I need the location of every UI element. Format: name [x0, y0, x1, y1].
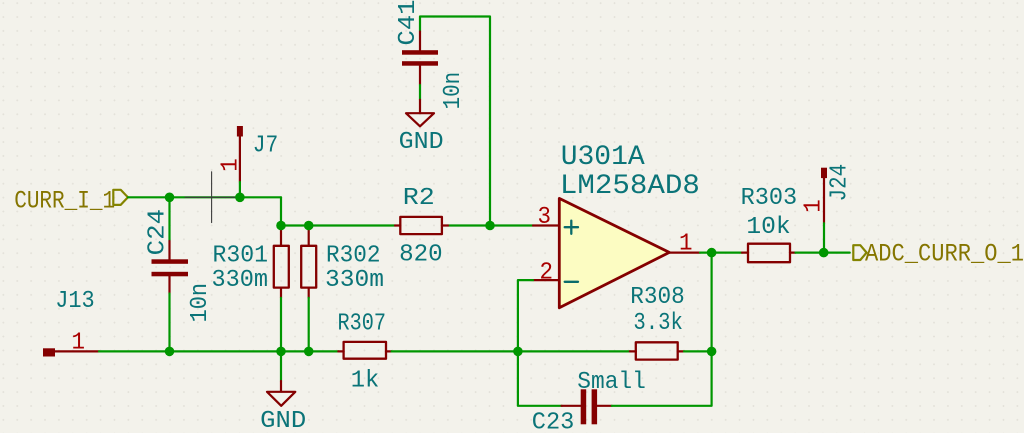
svg-text:R307: R307 [338, 311, 387, 338]
junction (C24 bottom) [165, 347, 175, 357]
wire [280, 298, 282, 352]
ground symbol (top, below C41) [406, 100, 434, 127]
wire [420, 17, 490, 226]
svg-text:LM258AD8: LM258AD8 [560, 171, 700, 202]
cursor crosshair [185, 172, 239, 223]
hierarchical label ADC_CURR_O_1 [853, 240, 1024, 269]
op-amp U301A [533, 198, 700, 307]
resistor R303 [742, 244, 796, 263]
junction (R302 bottom) [304, 347, 314, 357]
resistor R307 [338, 342, 391, 359]
svg-text:1k: 1k [351, 368, 380, 395]
svg-text:GND: GND [260, 408, 306, 433]
wire [392, 350, 630, 352]
svg-text:R308: R308 [630, 284, 685, 311]
svg-text:10k: 10k [746, 214, 790, 241]
svg-text:J24: J24 [827, 164, 854, 202]
svg-text:C23: C23 [532, 410, 575, 433]
junction (J24 / output rail) [819, 248, 829, 258]
svg-text:R302: R302 [326, 243, 381, 270]
wire [684, 350, 712, 352]
svg-text:GND: GND [399, 129, 444, 156]
wire [518, 351, 562, 405]
svg-text:C24: C24 [145, 209, 172, 256]
wire [796, 252, 850, 254]
wire [128, 196, 281, 198]
junction (inverting node) [513, 347, 523, 357]
connector J13 [43, 348, 99, 356]
junction (op-amp output) [707, 248, 717, 258]
svg-text:C41: C41 [395, 0, 422, 46]
wire [518, 280, 533, 351]
junction (R301 top) [276, 221, 286, 231]
svg-text:CURR_I_1: CURR_I_1 [14, 186, 115, 215]
resistor R301 [274, 226, 289, 298]
wire [419, 85, 421, 100]
svg-text:3: 3 [538, 204, 552, 231]
wire [823, 223, 825, 252]
svg-text:ADC_CURR_O_1: ADC_CURR_O_1 [865, 240, 1024, 269]
svg-text:820: 820 [399, 242, 443, 269]
junction (R301 bottom / GND) [276, 347, 286, 357]
resistor R302 [301, 226, 316, 298]
wire [99, 350, 338, 352]
hierarchical label CURR_I_1 [14, 186, 128, 215]
svg-text:J13: J13 [55, 288, 94, 315]
svg-text:U301A: U301A [561, 142, 645, 173]
wire [612, 253, 712, 406]
junction (feedback right) [707, 347, 717, 357]
svg-text:1: 1 [800, 199, 827, 213]
svg-text:10n: 10n [440, 72, 467, 110]
wire [448, 224, 533, 226]
svg-text:1: 1 [679, 231, 693, 258]
ground symbol (bottom) [267, 351, 295, 405]
wire [239, 182, 241, 197]
svg-text:R301: R301 [213, 243, 269, 270]
svg-text:10n: 10n [187, 283, 214, 323]
wire [280, 197, 282, 225]
capacitor C41 [402, 32, 438, 86]
resistor R2 [395, 217, 448, 234]
connector J7 [237, 126, 243, 182]
resistor R308 [630, 342, 684, 359]
junction (R302 top) [304, 221, 314, 231]
wire [168, 294, 170, 352]
svg-text:330m: 330m [212, 267, 269, 294]
junction (C41 branch) [485, 221, 495, 231]
svg-text:3.3k: 3.3k [633, 310, 683, 337]
capacitor C23 [562, 389, 612, 424]
wire [168, 197, 170, 241]
svg-text:1: 1 [72, 329, 86, 356]
svg-text:R2: R2 [403, 185, 435, 212]
svg-text:R303: R303 [741, 185, 798, 212]
wire [281, 224, 395, 226]
junction (CURR rail / C24) [165, 193, 175, 203]
wire [700, 252, 742, 254]
svg-text:330m: 330m [325, 267, 384, 294]
connector J24 [821, 168, 827, 224]
svg-text:J7: J7 [253, 133, 278, 160]
svg-text:Small: Small [577, 369, 646, 396]
capacitor C24 [152, 241, 189, 294]
junction (CURR rail / J7) [235, 193, 245, 203]
svg-text:1: 1 [218, 158, 245, 172]
svg-text:2: 2 [540, 260, 554, 287]
wire [308, 298, 310, 352]
